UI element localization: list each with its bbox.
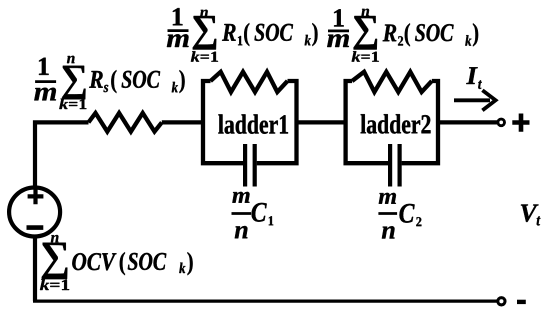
wire: ladder1 to ladder2	[297, 120, 346, 124]
label V (voltage Vt)	[521, 205, 539, 222]
current arrow It shaft	[454, 98, 490, 102]
ladder1 box left part	[203, 81, 243, 163]
subscript t (Vt)	[537, 216, 541, 225]
label m (denominator, R2 formula)	[327, 34, 349, 47]
wire: Rs to ladder1	[162, 120, 203, 124]
subscript k (R2 formula)	[465, 35, 471, 45]
resistor Rs zigzag	[89, 113, 162, 132]
label m (numerator, C2 label)	[379, 193, 396, 204]
ladder1 box right part	[257, 81, 297, 163]
label ladder1	[218, 114, 288, 133]
subscript 2 (R2 formula)	[398, 36, 403, 45]
wire: source bottom to bottom rail	[33, 237, 37, 301]
label ladder2	[361, 114, 431, 133]
open paren (R1 formula)	[244, 23, 249, 46]
label R (Rs formula)	[89, 71, 103, 88]
label k=1 (lower limit, OCV formula)	[40, 279, 69, 290]
capacitor C2 plates	[390, 144, 400, 187]
summation sigma (R2 formula)	[354, 16, 377, 50]
subscript s (Rs formula)	[104, 85, 109, 92]
label SOC (OCV formula)	[128, 253, 167, 270]
plus terminal (open circle)	[498, 119, 505, 126]
wire: ladder2 to plus terminal	[438, 120, 497, 124]
label n (upper limit, R2 formula)	[362, 9, 370, 16]
label n (denominator, C1 label)	[235, 226, 248, 238]
wire: bottom rail	[33, 300, 497, 303]
label n (upper limit, OCV formula)	[51, 235, 59, 242]
voltage source circle	[9, 188, 60, 237]
wire: top-left horizontal and left vertical down to source	[35, 122, 89, 186]
label k=1 (lower limit, R1 formula)	[191, 51, 218, 61]
label k=1 (lower limit, Rs formula)	[59, 99, 86, 109]
open paren (Rs formula)	[111, 70, 116, 93]
label SOC (R1 formula)	[255, 24, 294, 41]
open paren (OCV formula)	[120, 252, 125, 275]
fraction bar (Rs formula)	[35, 80, 56, 83]
label m (denominator, R1 formula)	[167, 34, 189, 47]
summation sigma (OCV formula)	[42, 243, 68, 279]
label n (upper limit, R1 formula)	[200, 10, 208, 17]
close paren (Rs formula)	[180, 70, 185, 93]
close paren (OCV formula)	[188, 252, 193, 275]
label SOC (Rs formula)	[122, 71, 161, 88]
plus sign at output terminal	[512, 114, 529, 132]
close paren (R1 formula)	[312, 23, 317, 46]
minus terminal (open circle)	[498, 298, 505, 305]
summation sigma (R1 formula)	[193, 16, 216, 50]
label OCV	[72, 253, 116, 270]
resistor R2 zigzag (ladder2 top edge)	[352, 72, 432, 92]
label 1 (numerator, R1 formula)	[173, 8, 183, 25]
label m (denominator, Rs formula)	[34, 88, 56, 101]
resistor R1 zigzag (ladder1 top edge)	[211, 72, 288, 92]
subscript t (It)	[478, 80, 482, 89]
current arrow It open head	[482, 90, 495, 110]
ladder2 box right part	[402, 81, 438, 163]
open paren (R2 formula)	[405, 23, 410, 46]
subscript k (OCV formula)	[179, 263, 185, 273]
subscript k (R1 formula)	[305, 35, 311, 45]
label C (C2)	[400, 204, 415, 223]
label R (R2 formula)	[383, 25, 397, 42]
subscript 1 (C1)	[269, 216, 273, 225]
label n (denominator, C2 label)	[382, 226, 395, 238]
subscript 1 (R1 formula)	[238, 36, 242, 45]
label SOC (R2 formula)	[415, 24, 454, 41]
label 1 (numerator, Rs formula)	[39, 58, 49, 75]
fraction bar (C1 label)	[232, 212, 252, 215]
capacitor C1 plates	[245, 144, 255, 187]
label n (upper limit, Rs formula)	[67, 56, 75, 63]
fraction bar (C2 label)	[378, 212, 397, 215]
label 1 (numerator, R2 formula)	[334, 9, 344, 26]
summation sigma (Rs formula)	[62, 66, 85, 100]
minus sign at output terminal	[517, 300, 526, 304]
label I (current It)	[466, 67, 478, 84]
subscript 2 (C2)	[416, 217, 421, 226]
fraction bar (R2 formula)	[328, 29, 349, 32]
plus sign inside source	[28, 189, 44, 205]
label m (numerator, C1 label)	[232, 192, 249, 203]
ladder2 box left part	[346, 81, 389, 163]
subscript k (Rs formula)	[172, 82, 178, 92]
close paren (R2 formula)	[473, 23, 478, 46]
label C (C1)	[252, 203, 267, 222]
label R (R1 formula)	[222, 24, 236, 41]
minus sign inside source	[27, 225, 44, 230]
label k=1 (lower limit, R2 formula)	[352, 51, 379, 61]
fraction bar (R1 formula)	[168, 29, 189, 32]
